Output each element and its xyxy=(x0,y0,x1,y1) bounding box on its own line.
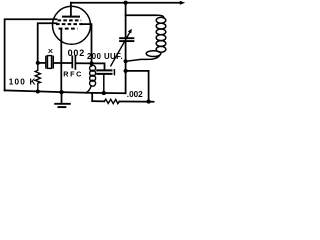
tube V1 plate lead xyxy=(70,3,72,16)
wire: riser up and corner to tank line xyxy=(126,71,149,102)
ground symbol stem xyxy=(61,92,63,103)
node: R1 bottom junction dot xyxy=(36,89,40,93)
svg-text:X: X xyxy=(48,49,53,55)
node: cathode-ground junction dot xyxy=(59,90,63,94)
tank coil L1 loop 3 xyxy=(156,29,166,35)
node: plate wire / tank junction dot xyxy=(124,1,128,5)
wire: coil top lead xyxy=(126,14,157,16)
resistor R1 100K (grid leak) xyxy=(35,63,40,92)
tube V1 plate bar xyxy=(63,16,79,18)
tube V1 cathode lead down xyxy=(60,29,62,93)
tube V1 grid 2 (dashed row 2) xyxy=(56,23,83,25)
wire: grid junction to crystal xyxy=(38,62,45,64)
RFC choke loop 4 xyxy=(90,80,96,86)
crystal X1 right plate xyxy=(52,56,54,67)
tank coil L1 loop 4 xyxy=(156,35,166,41)
node: lower row riser dot xyxy=(147,100,151,104)
svg-text:.002: .002 xyxy=(127,90,143,99)
capacitor C1 .002 right plate xyxy=(74,56,76,69)
wire: plate top wire to antenna xyxy=(71,2,181,4)
wire: coil bottom tail to tank vertical xyxy=(126,56,160,62)
wire: C2 bottom lead to ground rail xyxy=(103,75,105,94)
ground bar 1 xyxy=(55,103,70,105)
tube V1 screen lead right xyxy=(83,24,92,63)
crystal X1 holder box xyxy=(48,56,52,69)
tank coil L1 loop 6 xyxy=(156,46,166,52)
variable capacitor C3 bottom plate xyxy=(120,40,133,42)
node: coil bottom junction dot xyxy=(124,59,128,63)
RFC choke loop 3 xyxy=(90,75,96,81)
wire: lower row right segment xyxy=(119,101,153,103)
svg-text:100 K: 100 K xyxy=(9,78,37,87)
RFC choke exit tail xyxy=(86,86,91,93)
tank coil L1 loop 5 xyxy=(156,41,166,47)
capacitor C2 .002 bottom plate xyxy=(97,73,111,75)
node: C2 ground dot xyxy=(102,91,106,95)
svg-text:002: 002 xyxy=(68,48,85,58)
wire: tank vertical lower xyxy=(125,42,127,93)
node: tank line / corner wire dot xyxy=(124,69,128,73)
variable capacitor C3 arrow xyxy=(111,32,130,66)
crystal X1 left plate xyxy=(45,56,47,67)
node: screen / C1 / RFC junction dot xyxy=(89,61,93,65)
capacitor C1 .002 left plate xyxy=(71,56,73,67)
wire: suppressor lead + left rail xyxy=(5,19,57,90)
RFC choke loop 1 xyxy=(90,65,96,71)
wire: jog down to meter resistor row xyxy=(91,93,93,101)
wire: main bottom ground rail xyxy=(5,90,126,93)
tube V1 grid 3 (dashed row 1) xyxy=(58,19,82,21)
ground bar 2 xyxy=(58,106,65,108)
tank coil L1 entry curl xyxy=(157,15,164,18)
resistor R2 (bottom) xyxy=(104,99,119,103)
tank coil L1 loop 2 xyxy=(156,23,166,29)
antenna output arrow xyxy=(180,1,185,5)
wire: tank vertical upper (plate wire to variable cap) xyxy=(125,3,127,38)
tank coil L1 loop 1 xyxy=(156,17,166,23)
node: grid junction dot xyxy=(36,61,40,65)
wire: crystal to C1 xyxy=(54,62,72,64)
variable capacitor C3 top plate xyxy=(120,37,133,39)
svg-text:200 UUF.: 200 UUF. xyxy=(87,52,123,61)
capacitor C2 .002 top plate xyxy=(97,69,111,71)
wire: C1 to screen junction xyxy=(76,62,91,64)
tank coil L1 exit loop xyxy=(146,51,161,57)
capacitor C2 right tick mark xyxy=(113,70,115,75)
RFC choke: stem xyxy=(91,63,93,66)
svg-text:RFC: RFC xyxy=(63,69,83,78)
wire: lower row left segment xyxy=(92,100,104,102)
wire: screen junction to bypass cap C2 xyxy=(92,63,105,69)
tube V1 envelope xyxy=(53,6,91,44)
RFC choke loop 2 xyxy=(90,70,96,76)
wire: control grid lead down to crystal junction xyxy=(38,23,57,63)
tube V1 cathode (dashed row 3) xyxy=(59,28,78,30)
